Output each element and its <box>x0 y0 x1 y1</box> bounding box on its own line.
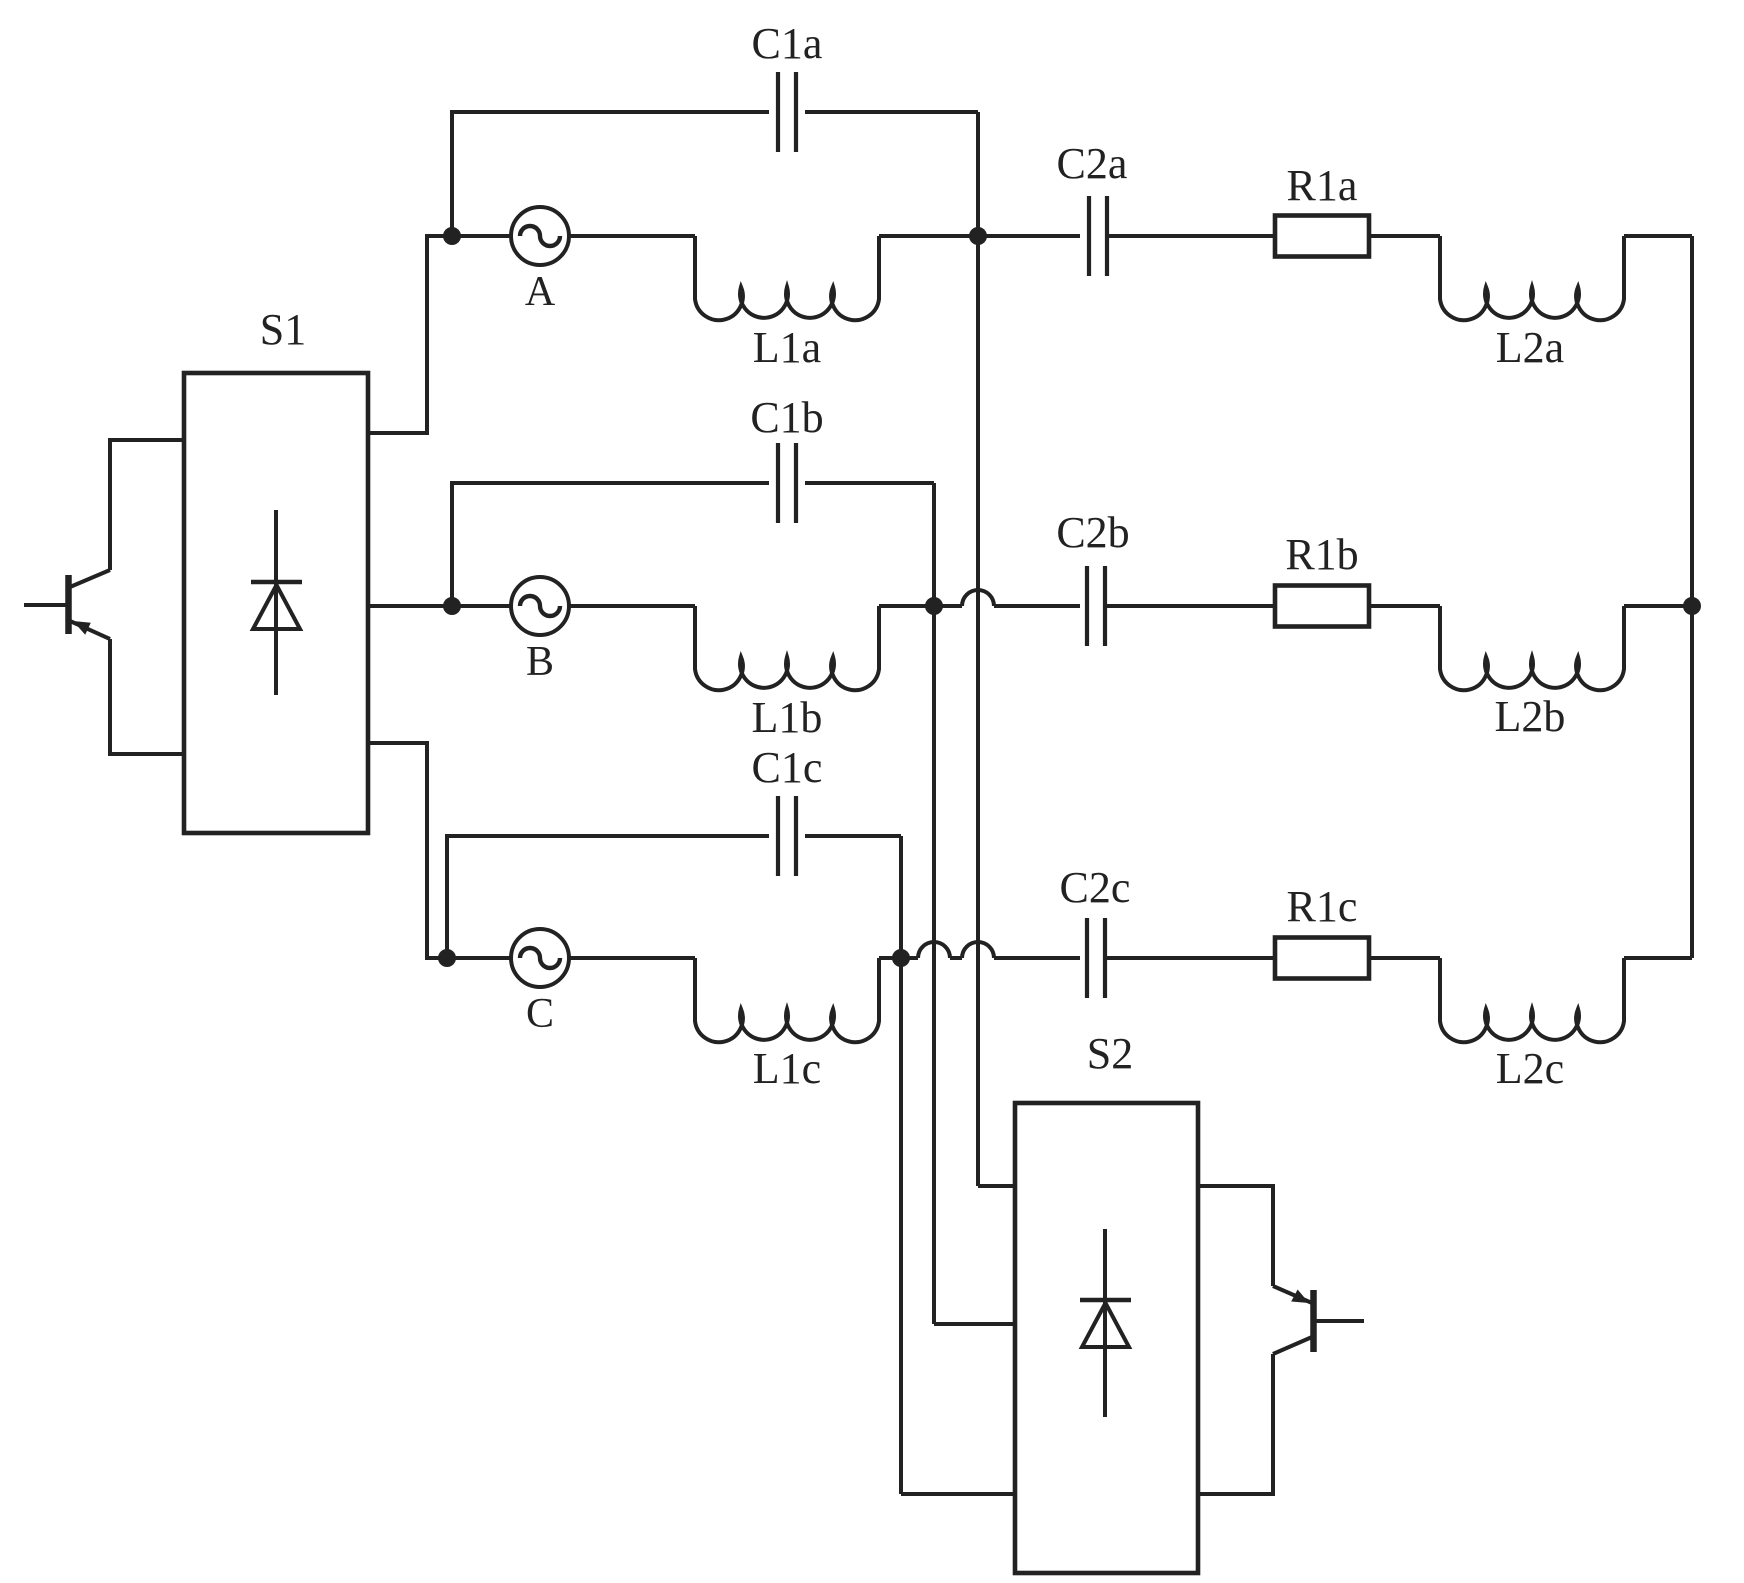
wire R1b to L2b <box>1369 604 1440 608</box>
svg-text:S2: S2 <box>1087 1029 1133 1078</box>
svg-text:L2b: L2b <box>1495 692 1566 741</box>
label C2b <box>1056 508 1129 557</box>
switch block S1 <box>184 373 368 833</box>
wire R1c to L2c <box>1369 956 1440 960</box>
svg-text:C1c: C1c <box>752 743 823 792</box>
label R1b <box>1285 530 1358 579</box>
label C1b <box>750 393 823 442</box>
wire C1c branch left <box>447 836 769 958</box>
wire L2a to right rail <box>1624 234 1692 238</box>
wire hop over vertical at phase B <box>962 590 994 606</box>
svg-text:C1a: C1a <box>752 19 823 68</box>
svg-text:L2c: L2c <box>1496 1044 1564 1093</box>
source C (AC) <box>511 929 569 987</box>
wire source C to L1c <box>568 956 695 960</box>
svg-text:L1b: L1b <box>752 693 823 742</box>
label A <box>525 269 556 315</box>
inductor L1b <box>695 606 879 690</box>
inductor L2c <box>1440 958 1624 1042</box>
wire to S2 top-left <box>978 1184 1015 1188</box>
wire hop to C2b <box>994 604 1080 608</box>
wire right rail <box>1690 236 1694 958</box>
switch block S2 <box>1015 1103 1198 1573</box>
wire L1a to C2a <box>879 234 1080 238</box>
wire S2 top-right to Q2 <box>1198 1186 1273 1286</box>
wire node A to source A <box>452 234 512 238</box>
wire node B to hop <box>934 604 962 608</box>
label C <box>526 991 554 1037</box>
wire S1 to phase A node <box>368 236 452 433</box>
label R1c <box>1287 882 1358 931</box>
wire S2 bottom-right to Q2 <box>1198 1354 1273 1494</box>
label S2 <box>1087 1029 1133 1078</box>
capacitor C2b <box>1087 566 1105 646</box>
source B (AC) <box>511 577 569 635</box>
svg-text:C2a: C2a <box>1057 139 1128 188</box>
wire L2c to right rail <box>1624 956 1692 960</box>
diode D2 inside S2 <box>1080 1229 1131 1417</box>
wire vertical node A to S2 top <box>976 112 980 1186</box>
label C2c <box>1060 863 1131 912</box>
inductor L2b <box>1440 606 1624 690</box>
wire hop over first vertical at phase C <box>918 942 950 958</box>
wire to S2 bottom-left <box>901 1492 1015 1496</box>
wire C2b to R1b <box>1105 604 1275 608</box>
transistor Q2 (IGBT beside S2) <box>1273 1286 1364 1354</box>
label C2a <box>1057 139 1128 188</box>
node right rail phase B junction <box>1683 597 1701 615</box>
capacitor C1b <box>778 443 796 523</box>
svg-text:C2b: C2b <box>1056 508 1129 557</box>
wire Q1 collector/emitter bracket to S1 <box>110 440 184 754</box>
svg-text:S1: S1 <box>260 305 306 354</box>
svg-text:L2a: L2a <box>1496 323 1564 372</box>
node phase B right junction <box>925 597 943 615</box>
capacitor C1a <box>778 72 796 152</box>
node phase C left junction <box>438 949 456 967</box>
wire C1b branch right <box>805 481 934 485</box>
node phase A right junction <box>969 227 987 245</box>
wire vertical node C to S2 bottom <box>899 836 903 1494</box>
capacitor C1c <box>778 796 796 876</box>
wire L2b to right rail <box>1624 604 1692 608</box>
label L2a <box>1496 323 1564 372</box>
svg-text:R1a: R1a <box>1287 161 1358 210</box>
wire R1a to L2a <box>1369 234 1440 238</box>
label S1 <box>260 305 306 354</box>
wire to S2 middle-left <box>934 1322 1015 1326</box>
label R1a <box>1287 161 1358 210</box>
wire node C to hops <box>901 956 918 960</box>
svg-text:A: A <box>525 269 556 315</box>
wire between hops <box>950 956 962 960</box>
label C1c <box>752 743 823 792</box>
wire C1b branch left <box>452 483 769 606</box>
svg-text:L1a: L1a <box>753 323 821 372</box>
capacitor C2c <box>1087 918 1105 998</box>
svg-text:C2c: C2c <box>1060 863 1131 912</box>
inductor L1c <box>695 958 879 1042</box>
wire L1c to node <box>879 956 901 960</box>
label L1c <box>753 1044 821 1093</box>
inductor L1a <box>695 236 879 320</box>
wire L1b to node <box>879 604 934 608</box>
svg-text:B: B <box>526 639 554 685</box>
node phase C right junction <box>892 949 910 967</box>
wire C2c to R1c <box>1105 956 1275 960</box>
resistor R1a <box>1275 216 1369 257</box>
wire node B to source B <box>452 604 512 608</box>
inductor L2a <box>1440 236 1624 320</box>
wire C1c branch right <box>805 834 901 838</box>
wire C2a to R1a <box>1107 234 1275 238</box>
label L2c <box>1496 1044 1564 1093</box>
svg-text:C1b: C1b <box>750 393 823 442</box>
resistor R1b <box>1275 586 1369 627</box>
wire C1a branch left <box>452 112 769 236</box>
wire vertical node B to S2 middle <box>932 483 936 1324</box>
svg-text:C: C <box>526 991 554 1037</box>
wire node C to source C <box>447 956 512 960</box>
wire hops to C2c <box>994 956 1080 960</box>
label C1a <box>752 19 823 68</box>
diode D1 inside S1 <box>251 510 302 695</box>
label L2b <box>1495 692 1566 741</box>
svg-text:L1c: L1c <box>753 1044 821 1093</box>
svg-text:R1c: R1c <box>1287 882 1358 931</box>
wire source B to L1b <box>568 604 695 608</box>
label B <box>526 639 554 685</box>
transistor Q1 (IGBT beside S1) <box>24 570 110 639</box>
wire hop over second vertical at phase C <box>962 942 994 958</box>
svg-text:R1b: R1b <box>1285 530 1358 579</box>
label L1b <box>752 693 823 742</box>
resistor R1c <box>1275 938 1369 979</box>
node phase A left junction <box>443 227 461 245</box>
wire S1 to phase C node <box>368 743 447 958</box>
capacitor C2a <box>1089 196 1107 276</box>
wire source A to L1a <box>568 234 695 238</box>
source A (AC) <box>511 207 569 265</box>
label L1a <box>753 323 821 372</box>
wire C1a branch right <box>805 110 978 114</box>
node phase B left junction <box>443 597 461 615</box>
wire S1 to phase B node <box>368 604 452 608</box>
